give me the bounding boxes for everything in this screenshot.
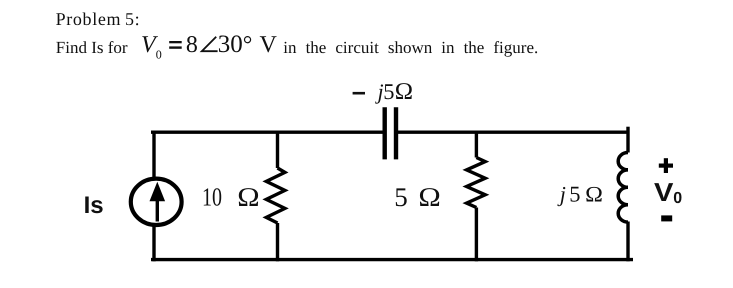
svg-text:5:: 5: [125,9,140,29]
svg-text:8: 8 [186,32,198,58]
svg-text:10: 10 [202,182,222,211]
svg-text:°: ° [243,32,253,58]
svg-text:Problem: Problem [56,9,122,29]
svg-text:in the circuit shown in the fi: in the circuit shown in the figure. [283,38,538,57]
svg-text:V: V [260,32,278,58]
svg-text:5: 5 [394,182,408,212]
svg-text:Is: Is [84,192,104,219]
svg-text:0: 0 [156,48,162,62]
svg-text:Ω: Ω [585,181,603,206]
svg-text:0: 0 [673,190,682,207]
svg-text:j: j [557,181,566,206]
svg-text:V: V [654,177,674,207]
svg-text:Ω: Ω [237,182,259,212]
svg-text:j: j [375,79,384,104]
svg-text:Find Is for: Find Is for [56,38,128,57]
svg-text:5: 5 [569,181,580,206]
svg-text:Ω: Ω [395,79,413,105]
svg-text:5: 5 [383,79,394,104]
svg-text:Ω: Ω [418,182,440,212]
svg-text:30: 30 [218,31,243,58]
